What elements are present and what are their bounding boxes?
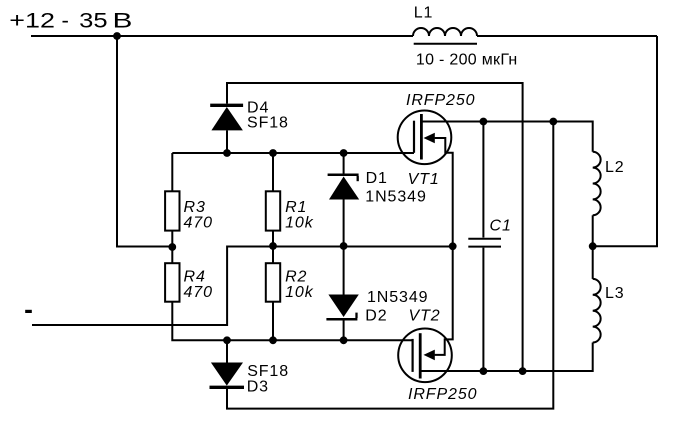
svg-text:10 - 200 мкГн: 10 - 200 мкГн [416, 52, 518, 69]
svg-text:L3: L3 [605, 285, 625, 302]
svg-text:L1: L1 [414, 4, 434, 21]
svg-text:10k: 10k [285, 215, 314, 232]
svg-text:470: 470 [184, 284, 213, 301]
svg-text:35: 35 [79, 10, 107, 33]
svg-text:SF18: SF18 [247, 115, 289, 132]
svg-text:1N5349: 1N5349 [365, 188, 426, 205]
svg-text:R2: R2 [285, 269, 307, 286]
svg-text:1N5349: 1N5349 [367, 289, 428, 306]
svg-text:R4: R4 [184, 269, 206, 286]
svg-text:-: - [62, 10, 69, 33]
svg-text:D2: D2 [365, 308, 387, 325]
svg-text:C1: C1 [490, 218, 512, 235]
svg-text:VT1: VT1 [408, 171, 440, 188]
svg-text:R3: R3 [184, 199, 206, 216]
svg-text:D3: D3 [247, 379, 269, 396]
svg-text:VT2: VT2 [409, 308, 441, 325]
svg-text:10k: 10k [285, 284, 314, 301]
svg-text:D1: D1 [366, 170, 388, 187]
svg-text:470: 470 [184, 215, 213, 232]
svg-text:IRFP250: IRFP250 [406, 92, 475, 109]
svg-text:SF18: SF18 [247, 363, 289, 380]
svg-text:R1: R1 [285, 199, 307, 216]
svg-text:L2: L2 [605, 159, 625, 176]
svg-text:IRFP250: IRFP250 [408, 386, 477, 403]
svg-text:+12: +12 [9, 10, 55, 33]
svg-text:В: В [113, 10, 133, 33]
